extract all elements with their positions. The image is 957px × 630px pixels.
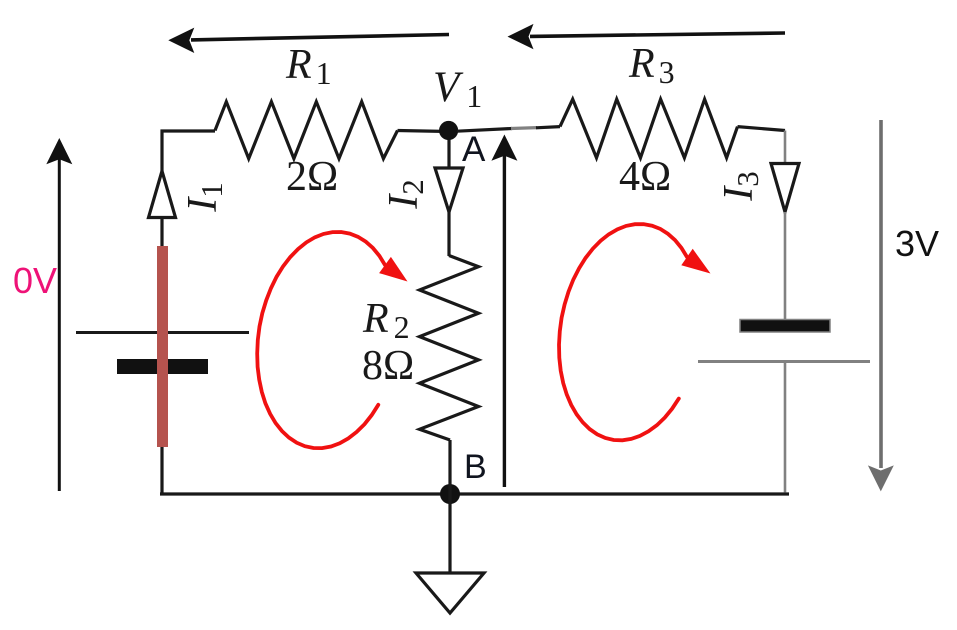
svg-text:R3: R3 <box>628 41 675 90</box>
wire gray right vertical upper <box>784 131 787 165</box>
battery 3V right: thick plate <box>740 320 830 333</box>
battery 3V right: thin plate <box>698 360 870 363</box>
svg-text:I2: I2 <box>381 179 430 210</box>
svg-text:4Ω: 4Ω <box>619 154 671 200</box>
wire gray segment before R3 <box>511 126 537 130</box>
battery V1 left: thin plate <box>76 331 249 334</box>
wire top-left horizontal <box>161 129 216 132</box>
svg-text:0V: 0V <box>13 260 57 301</box>
svg-text:A: A <box>462 130 486 169</box>
annotation arrow middle (points up) <box>491 135 517 488</box>
wire left vertical upper <box>160 130 163 172</box>
resistor R2 <box>420 256 479 441</box>
wire node A to R3 (black part) <box>457 129 512 132</box>
ground <box>416 573 484 613</box>
wire node B to ground <box>448 494 451 573</box>
node B junction dot <box>440 484 460 504</box>
wire gray battery to bottom <box>784 362 787 493</box>
wire node A down <box>447 131 450 168</box>
annotation arrow top-right (points left) <box>508 24 786 49</box>
svg-text:3V: 3V <box>895 223 939 264</box>
svg-text:2Ω: 2Ω <box>286 154 338 200</box>
wire R2 to node B <box>448 440 451 494</box>
current arrow I3 (open, down) <box>771 164 799 213</box>
resistor R3 <box>560 99 738 158</box>
red mesh current loop left <box>257 232 407 448</box>
annotation arrow far-left (points up) <box>46 138 72 491</box>
svg-text:V1: V1 <box>433 64 482 114</box>
annotation arrow right gray (points down) <box>868 120 894 491</box>
svg-text:8Ω: 8Ω <box>362 343 414 389</box>
brown highlight stroke over left battery wire <box>157 246 168 447</box>
wire I2 to R2 <box>447 211 450 256</box>
svg-text:R2: R2 <box>362 296 410 345</box>
wire R3 to right corner <box>738 127 786 131</box>
red mesh current loop right <box>559 224 711 440</box>
svg-text:R1: R1 <box>285 42 332 91</box>
node A junction dot <box>439 121 458 140</box>
wire R1 to node A <box>398 131 450 132</box>
svg-text:I3: I3 <box>716 171 765 202</box>
wire gray I3 to battery <box>784 212 787 320</box>
resistor R1 <box>215 102 398 159</box>
battery V1 left: thick plate <box>117 359 208 374</box>
wire left vertical lower <box>160 218 163 495</box>
wire bottom horizontal <box>160 492 789 495</box>
current arrow I1 (open, up) <box>149 171 176 218</box>
svg-text:I1: I1 <box>180 182 229 213</box>
annotation arrow top-left (points left) <box>168 28 449 53</box>
svg-text:B: B <box>464 448 487 486</box>
current arrow I2 (open, down) <box>435 168 463 212</box>
wire to R3 start <box>536 127 560 128</box>
